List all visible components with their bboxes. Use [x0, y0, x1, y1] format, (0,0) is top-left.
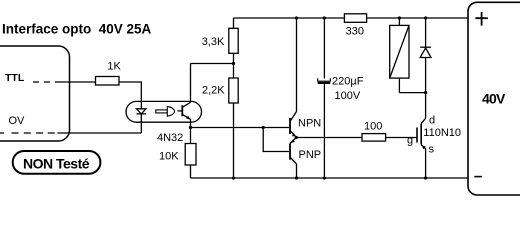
svg-text:100V: 100V	[335, 90, 361, 102]
svg-text:100: 100	[364, 121, 382, 133]
svg-text:NPN: NPN	[298, 118, 321, 130]
svg-text:d: d	[429, 115, 435, 127]
svg-text:TTL: TTL	[5, 72, 25, 84]
svg-text:330: 330	[346, 26, 364, 38]
svg-text:OV: OV	[9, 115, 26, 127]
svg-text:2,2K: 2,2K	[202, 85, 225, 97]
svg-text:Interface opto 40V 25A: Interface opto 40V 25A	[2, 21, 152, 36]
svg-text:220µF: 220µF	[332, 75, 364, 87]
svg-text:40V: 40V	[482, 91, 506, 107]
svg-text:10K: 10K	[159, 151, 179, 163]
svg-text:NON Testé: NON Testé	[23, 155, 90, 171]
svg-text:110N10: 110N10	[423, 127, 461, 139]
svg-text:3,3K: 3,3K	[202, 36, 225, 48]
svg-text:PNP: PNP	[299, 149, 322, 161]
svg-text:4N32: 4N32	[157, 132, 183, 144]
svg-text:s: s	[429, 144, 435, 156]
svg-text:g: g	[407, 135, 413, 147]
svg-text:1K: 1K	[107, 61, 121, 73]
